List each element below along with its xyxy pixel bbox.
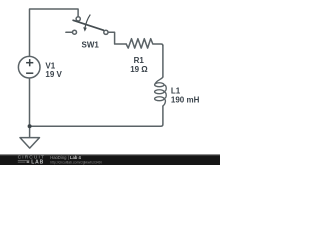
wire junction to ground — [29, 126, 31, 137]
wire top-left loop: V1 top to switch pole — [30, 9, 79, 57]
svg-text:19 Ω: 19 Ω — [130, 65, 148, 74]
switch SW1 left unconnected terminal — [66, 31, 73, 33]
svg-text:V1: V1 — [45, 62, 55, 71]
switch SW1 actuation arrow — [85, 15, 90, 29]
svg-text:190 mH: 190 mH — [171, 95, 200, 104]
switch SW1 lever — [73, 20, 103, 30]
svg-text:http://circuitlab.com/c/jjkkwh: http://circuitlab.com/c/jjkkwhzr349r — [50, 160, 103, 164]
switch SW1 pole terminal — [76, 17, 80, 21]
svg-text:19 V: 19 V — [45, 70, 62, 79]
labels — [45, 41, 199, 105]
wire resistor to inductor — [162, 46, 164, 77]
svg-text:R1: R1 — [134, 56, 145, 65]
junction dot at ground node — [28, 124, 32, 128]
V1 minus sign — [26, 72, 33, 74]
switch SW1 throw terminal — [104, 30, 108, 34]
svg-text:L1: L1 — [171, 87, 181, 96]
CircuitLab logo — [18, 155, 46, 166]
resistor R1 — [126, 39, 163, 48]
V1 plus sign — [26, 59, 33, 73]
ground — [20, 138, 40, 149]
voltage source V1 circle — [18, 56, 40, 78]
wire inductor to bottom rail — [30, 106, 163, 126]
wire V1 bottom to ground junction — [29, 78, 31, 126]
svg-text:SW1: SW1 — [82, 41, 100, 50]
inductor L1 — [155, 77, 167, 106]
wire switch throw to resistor — [108, 32, 126, 44]
svg-text:LAB: LAB — [31, 159, 44, 165]
